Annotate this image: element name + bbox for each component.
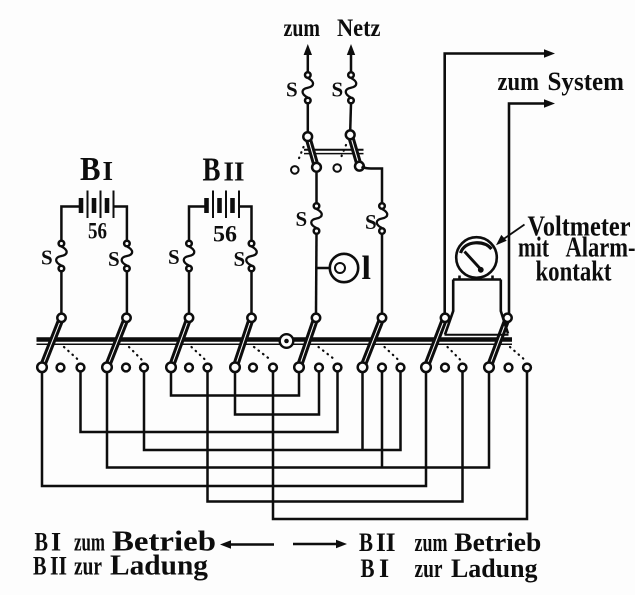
svg-text:56: 56 — [213, 222, 237, 247]
wire fuse S7 to blade 5 — [315, 234, 318, 314]
fuse S5 (mains left) — [286, 72, 313, 103]
wire mains left with arrow — [304, 44, 312, 72]
svg-text:S: S — [108, 247, 120, 271]
wire battery B1 left leg — [61, 207, 80, 314]
wire fuse S8 to blade 6 — [381, 234, 384, 314]
wire mains right with arrow — [347, 44, 355, 72]
battery B1 cells — [81, 191, 114, 219]
fuse S1 (B1 left) — [41, 241, 67, 272]
voltmeter body — [445, 276, 509, 335]
mains switch blade right — [346, 130, 364, 170]
voltmeter V1 — [456, 237, 497, 278]
svg-text:BIzurLadung: BIzurLadung — [361, 554, 538, 583]
svg-text:BIIzurLadung: BIIzurLadung — [33, 551, 208, 582]
wire lamp stub — [317, 267, 337, 270]
wire L2 node B4b-c5a — [235, 372, 319, 415]
svg-text:l: l — [362, 250, 371, 287]
knife switch blade 5 — [294, 314, 320, 373]
wire L1 node B3b-B5b — [171, 372, 299, 396]
wire L5 node B2b-B8b — [107, 372, 489, 468]
voltmeter label arrow — [496, 225, 525, 246]
wire fuse S6 to switch — [349, 104, 352, 132]
knife switch blade 6 — [358, 314, 386, 373]
knife switch blade 7 — [421, 314, 449, 373]
svg-text:BI: BI — [80, 151, 113, 188]
mains double-pole switch tie bar — [304, 150, 364, 154]
wire B6b tap to L4 — [361, 372, 364, 450]
svg-text:S: S — [332, 78, 344, 102]
svg-text:56: 56 — [88, 219, 107, 244]
busbar center pivot — [280, 334, 294, 348]
mains switch blade left — [303, 132, 321, 172]
knife switch blade 1 — [37, 314, 65, 373]
wire L7 node c3b-c7b — [208, 372, 463, 502]
wire to system lower (from blade 8) with arrow — [509, 99, 555, 313]
arrow right — [293, 540, 347, 548]
svg-text:S: S — [296, 207, 308, 231]
fuse S2 (B1 right) — [108, 241, 132, 272]
knife switch blade 8 — [484, 314, 511, 373]
battery B2 cells — [207, 191, 240, 219]
wire battery B2 right leg — [240, 207, 252, 314]
svg-text:S: S — [286, 78, 298, 102]
contact terminals row — [57, 364, 531, 372]
fuse S6 (mains right) — [332, 72, 357, 103]
mains switch dotted hints — [298, 145, 347, 162]
wire mains switch right pole down — [362, 167, 383, 204]
wire battery B2 left leg — [189, 207, 206, 314]
wire mains switch left pole down — [315, 172, 318, 204]
wire to system upper (from blade 7) with arrow — [445, 49, 555, 313]
svg-text:zumSystem: zumSystem — [498, 67, 625, 96]
knife switch blade 3 — [166, 314, 193, 373]
fuse S8 (right branch) — [365, 203, 387, 234]
knife switch blade 2 — [102, 314, 131, 373]
svg-text:S: S — [168, 245, 180, 269]
wire L8 node c4b-c8b — [273, 372, 527, 519]
fuse S7 (lamp branch) — [296, 203, 322, 234]
wire fuse S5 to switch — [307, 104, 310, 134]
svg-text:BII: BII — [203, 152, 245, 189]
svg-text:kontakt: kontakt — [536, 257, 613, 288]
fuse S4 (B2 right) — [234, 241, 257, 272]
fuse S3 (B2 left) — [168, 241, 194, 272]
wire L4 node c2b-c6b — [144, 372, 401, 450]
arrow left — [220, 540, 274, 548]
wire c6a tap to L5 — [381, 372, 384, 468]
svg-text:S: S — [41, 246, 53, 270]
busbar — [37, 340, 513, 345]
wire battery B1 right leg — [115, 207, 127, 314]
wire L3 node c1b-c5b — [81, 372, 338, 432]
dotted alternate-position lines for switches 1-8 — [64, 347, 526, 361]
svg-text:zumNetz: zumNetz — [284, 15, 381, 42]
lamp l — [330, 250, 371, 287]
mains switch alternate contact right — [333, 164, 341, 172]
svg-text:BIIzumBetrieb: BIIzumBetrieb — [359, 528, 541, 557]
svg-text:S: S — [234, 247, 246, 271]
mains switch alternate contact left — [291, 166, 299, 174]
wire L6 node B1b-B7b — [42, 372, 426, 486]
svg-text:S: S — [365, 210, 377, 234]
knife switch blade 4 — [230, 314, 256, 373]
